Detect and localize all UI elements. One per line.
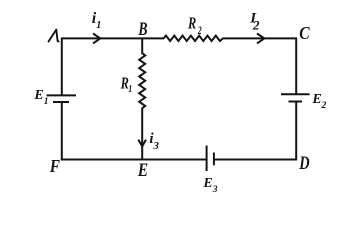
svg-text:R1: R1 bbox=[120, 75, 132, 95]
svg-text:E2: E2 bbox=[311, 92, 326, 111]
svg-text:i1: i1 bbox=[92, 10, 101, 31]
svg-text:R2: R2 bbox=[187, 15, 202, 38]
svg-text:C: C bbox=[299, 23, 310, 43]
svg-text:D: D bbox=[298, 152, 309, 173]
svg-text:I2: I2 bbox=[249, 11, 260, 33]
svg-text:i3: i3 bbox=[149, 131, 159, 152]
svg-text:E1: E1 bbox=[33, 88, 48, 107]
svg-text:E: E bbox=[137, 159, 148, 181]
svg-text:E3: E3 bbox=[202, 176, 217, 195]
svg-text:B: B bbox=[138, 18, 148, 40]
svg-text:F: F bbox=[49, 156, 60, 177]
